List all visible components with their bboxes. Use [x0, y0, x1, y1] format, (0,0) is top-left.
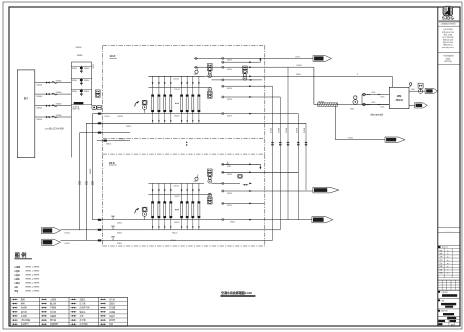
flag tank drain — [415, 103, 428, 108]
riser 313 — [313, 67, 315, 104]
svg-text:DN200: DN200 — [118, 116, 123, 118]
expansion tank WB — [389, 87, 409, 108]
divider line — [438, 297, 460, 299]
svg-text:DN200: DN200 — [174, 116, 179, 118]
ladder valves — [80, 66, 82, 73]
riser floor-crossing ticks — [271, 142, 273, 143]
pressure branch lower — [362, 104, 389, 106]
svg-text:DN250: DN250 — [297, 128, 299, 133]
pipe f1-1 valve — [98, 113, 101, 115]
svg-text:DN250: DN250 — [230, 221, 235, 223]
svg-text:DN300: DN300 — [106, 143, 111, 145]
svg-text:DN125: DN125 — [175, 196, 180, 198]
divider line — [438, 289, 460, 291]
flag to cooling tower — [313, 56, 332, 62]
divider line — [438, 52, 460, 54]
continuation dots — [186, 142, 187, 143]
svg-text:DN400: DN400 — [37, 119, 43, 121]
svg-text:200m3: 200m3 — [396, 100, 404, 102]
svg-text:www.sjdg.com.cn: www.sjdg.com.cn — [442, 47, 454, 49]
svg-text:DN400: DN400 — [37, 96, 43, 98]
logo SJDG — [443, 6, 453, 16]
svg-text:4: 4 — [32, 279, 33, 281]
pipe f2-1 — [93, 219, 312, 221]
divider line — [438, 232, 460, 234]
svg-text:DN300: DN300 — [84, 80, 89, 82]
svg-text:DN300: DN300 — [72, 80, 77, 82]
riser drop A — [92, 114, 94, 220]
svg-text:DN125: DN125 — [172, 232, 177, 234]
divider line — [438, 315, 460, 317]
pipe f1-2 — [86, 122, 306, 124]
svg-text:DN25: DN25 — [381, 107, 385, 109]
divider line — [438, 279, 460, 281]
valve stack B — [208, 88, 212, 92]
svg-text:DN150: DN150 — [174, 79, 179, 81]
svg-text:L/KR: L/KR — [15, 266, 21, 269]
mid cluster — [238, 175, 242, 179]
svg-text:nG: nG — [15, 286, 18, 289]
svg-text:DN250: DN250 — [304, 128, 306, 133]
project name bar — [442, 294, 457, 297]
pipe f2 valves — [98, 219, 101, 221]
svg-text:DN50: DN50 — [93, 64, 95, 68]
item name bar — [441, 303, 456, 305]
flag to unit1 — [313, 187, 339, 193]
tap water valve — [418, 83, 423, 88]
svg-text:SJDG: SJDG — [442, 16, 455, 21]
svg-text:DN350: DN350 — [56, 92, 62, 94]
valve stack C — [243, 66, 248, 69]
svg-text:DN350: DN350 — [56, 80, 62, 82]
svg-text:DN250: DN250 — [227, 99, 232, 101]
zone boundary verticals — [102, 45, 104, 246]
plant valve squares — [97, 106, 102, 110]
legend title underline — [14, 258, 32, 260]
tank drain line — [409, 104, 415, 106]
svg-text:DN25: DN25 — [411, 89, 415, 91]
upper valve pair — [96, 90, 101, 93]
svg-text:5: 5 — [32, 283, 33, 285]
pipe f1-3 — [80, 132, 130, 134]
svg-text:DN150: DN150 — [271, 128, 273, 133]
svg-text:WB: WB — [397, 94, 401, 98]
hatched strainer — [318, 103, 338, 106]
line y58 circle — [195, 57, 197, 59]
svg-text:LQG: LQG — [15, 270, 20, 273]
pipe f1-2 valve — [98, 122, 101, 124]
branch arrow down — [259, 164, 261, 168]
svg-text:DN125: DN125 — [126, 126, 131, 128]
svg-text:DN250: DN250 — [227, 60, 232, 62]
svg-text:LRH: LRH — [15, 282, 20, 285]
svg-text:1: 1 — [32, 267, 33, 269]
pressure branch vertical — [361, 95, 363, 105]
pipe f1-4 valve — [104, 140, 107, 142]
tank vent — [409, 83, 412, 86]
svg-text:DN250: DN250 — [227, 88, 232, 90]
svg-text:3: 3 — [32, 275, 33, 277]
svg-text:DN150: DN150 — [174, 186, 179, 188]
svg-text:空调水系统原理图1:100: 空调水系统原理图1:100 — [221, 290, 252, 295]
drawing title underline — [221, 295, 256, 297]
pump set floor2 — [142, 207, 147, 211]
fan coil group floor2 — [148, 182, 204, 184]
strainer drain — [334, 106, 336, 140]
divider line — [438, 308, 460, 310]
svg-text:DN250: DN250 — [227, 115, 232, 117]
svg-text:DN300: DN300 — [84, 68, 89, 70]
valve stack E — [208, 193, 212, 197]
valve stack D — [208, 169, 213, 172]
tank feed pipe — [392, 76, 394, 87]
svg-text:DN250: DN250 — [227, 174, 232, 176]
svg-text:DN150: DN150 — [65, 243, 70, 245]
svg-text:DN200: DN200 — [174, 222, 179, 224]
svg-text:图 例: 图 例 — [15, 251, 27, 259]
pipe f1-1 — [93, 113, 299, 115]
flag to drain ditch — [385, 137, 405, 142]
main risers — [272, 86, 274, 240]
svg-text:DN50: DN50 — [350, 109, 354, 111]
drawing title chip — [438, 310, 440, 312]
pipe f2 branch valves — [112, 217, 114, 220]
svg-text:DN200: DN200 — [227, 193, 232, 195]
tap water pump — [419, 89, 423, 93]
svg-text:DN25: DN25 — [372, 102, 376, 104]
svg-text:DN400: DN400 — [37, 84, 43, 86]
valve stack A — [208, 64, 213, 67]
floor1 zone boundary — [103, 44, 265, 46]
svg-text:DN20: DN20 — [194, 181, 198, 183]
legend symbol table — [10, 297, 127, 326]
svg-text:DN350: DN350 — [56, 115, 62, 117]
svg-text:DN100: DN100 — [171, 240, 176, 242]
table header chip — [438, 246, 441, 248]
pipe f2-3 — [61, 239, 273, 241]
svg-text:DN125: DN125 — [175, 89, 180, 91]
pump set floor1 — [142, 100, 147, 104]
flag to unit2 — [312, 217, 333, 223]
svg-text:DN250: DN250 — [227, 205, 232, 207]
svg-text:DN250: DN250 — [117, 232, 122, 234]
svg-text:DN200: DN200 — [279, 128, 281, 133]
svg-text:PQ: PQ — [15, 290, 19, 293]
divider line — [438, 226, 460, 228]
riser flex joints — [78, 181, 81, 183]
drawing number grid — [438, 319, 460, 321]
svg-text:上海建筑设计研究院: 上海建筑设计研究院 — [440, 23, 456, 26]
branch valve — [227, 164, 230, 166]
svg-text:DN80: DN80 — [77, 55, 83, 57]
svg-text:DN250: DN250 — [286, 128, 288, 133]
svg-text:2#.F: 2#.F — [109, 161, 115, 165]
svg-text:DN200: DN200 — [90, 169, 92, 174]
divider line — [438, 63, 460, 65]
svg-text:7: 7 — [32, 291, 33, 293]
item label chip — [438, 299, 440, 301]
svg-text:DN400: DN400 — [76, 47, 82, 49]
svg-text:1#.F: 1#.F — [110, 54, 116, 58]
pipe f2-2 — [61, 229, 281, 231]
svg-text:DN20: DN20 — [194, 74, 198, 76]
floor1 riser connections — [194, 57, 313, 59]
flag supply from — [42, 228, 61, 234]
svg-text:LRG: LRG — [15, 278, 20, 281]
svg-text:DN25: DN25 — [372, 92, 376, 94]
flag tap water — [425, 88, 438, 93]
countersign grid — [438, 279, 460, 281]
item name bar2 — [445, 306, 453, 308]
svg-text:. . . . . . .: . . . . . . . — [445, 231, 453, 233]
pressure line — [314, 104, 389, 106]
drawing title bar — [443, 313, 454, 315]
svg-text:2: 2 — [32, 271, 33, 273]
pressure pump — [353, 100, 358, 105]
svg-text:DN250: DN250 — [227, 69, 232, 71]
company banner — [439, 20, 460, 22]
title block divider — [437, 7, 439, 326]
svg-text:DN300: DN300 — [72, 91, 77, 93]
riser drop B — [85, 123, 87, 240]
tap water line — [409, 90, 425, 92]
riser drop C — [79, 133, 81, 231]
pressure branch upper — [362, 94, 389, 96]
svg-text:DN400: DN400 — [37, 108, 43, 110]
svg-text:DN25: DN25 — [381, 97, 385, 99]
pipe f1-4 — [97, 140, 130, 142]
flag return from — [42, 239, 61, 245]
plant pump circle — [92, 105, 97, 110]
svg-text:DN300: DN300 — [72, 68, 77, 70]
svg-text:DN250: DN250 — [297, 65, 302, 67]
header ladder rails — [70, 62, 72, 158]
svg-text:DN250: DN250 — [117, 222, 122, 224]
svg-text:DN400: DN400 — [119, 138, 124, 140]
fan coil group floor1 — [148, 75, 204, 77]
svg-text:DN70: DN70 — [296, 56, 300, 58]
svg-text:冷冻水泵: 冷冻水泵 — [73, 105, 80, 108]
header1 extension — [204, 75, 392, 77]
pipe f1-3 valve — [98, 132, 101, 134]
svg-text:DN50: DN50 — [227, 166, 231, 168]
svg-text:DN350: DN350 — [56, 104, 62, 106]
divider line — [438, 244, 460, 246]
svg-text:~ DN32: ~ DN32 — [347, 138, 353, 140]
svg-text:DN400: DN400 — [296, 74, 301, 76]
signature table — [438, 248, 460, 250]
svg-text:DN250: DN250 — [105, 116, 110, 118]
chiller branches — [35, 82, 72, 84]
svg-text:6: 6 — [32, 287, 33, 289]
floor2 zone boundary — [103, 153, 265, 155]
floor2 riser connections — [222, 163, 261, 165]
svg-text:DN300: DN300 — [84, 91, 89, 93]
divider line — [438, 25, 460, 27]
project label chip — [438, 291, 440, 293]
svg-text:DN150: DN150 — [65, 232, 70, 234]
chiller tank — [17, 70, 35, 158]
plant pump bar — [74, 102, 84, 104]
svg-text:LQH: LQH — [15, 274, 20, 277]
svg-text:DN250: DN250 — [117, 243, 122, 245]
